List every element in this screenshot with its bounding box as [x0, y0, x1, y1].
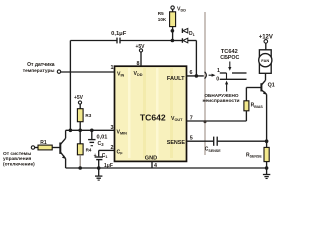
wire: Q1 base — [246, 87, 261, 89]
svg-text:0,1μF: 0,1μF — [111, 31, 127, 37]
capacitor 0,1uF — [111, 31, 127, 43]
svg-text:0,01: 0,01 — [97, 134, 108, 140]
ground rail — [66, 167, 267, 169]
transistor Q2 — [60, 130, 66, 168]
ground symbol left — [95, 168, 102, 180]
IC GND pin 4 stub — [151, 161, 153, 168]
wire: VIN input — [61, 71, 115, 73]
wire: top bypass line (right of cap) — [120, 40, 172, 42]
svg-text:R3: R3 — [85, 113, 91, 118]
svg-text:1: 1 — [217, 68, 220, 74]
wire: logic high level segment A — [220, 72, 227, 74]
capacitor C1 1uF on CF pin — [94, 150, 115, 168]
node junction on R5 leg — [171, 29, 175, 33]
svg-text:СБРОС: СБРОС — [220, 55, 239, 61]
resistor R3 — [77, 104, 91, 130]
svg-text:GND: GND — [145, 156, 157, 162]
node junction RSENSE/ground — [265, 166, 269, 170]
svg-text:1: 1 — [111, 65, 114, 71]
wire: VMIN node to pin 3 — [66, 129, 115, 131]
+5V terminal at R3 — [74, 95, 84, 104]
svg-text:От датчика: От датчика — [27, 62, 55, 68]
ground symbol right — [263, 168, 270, 179]
switch waveform: arrow to levels — [209, 74, 216, 77]
resistor RSENSE — [246, 147, 269, 161]
svg-text:От системы: От системы — [3, 151, 31, 157]
svg-text:Q1: Q1 — [268, 82, 275, 88]
node junction C3 — [90, 129, 94, 133]
svg-text:FAN: FAN — [261, 58, 269, 63]
+5V terminal at pin 8 — [135, 44, 145, 52]
svg-text:6: 6 — [190, 70, 193, 76]
svg-text:(отключение): (отключение) — [3, 162, 35, 168]
capacitor CSENSE — [205, 137, 221, 153]
svg-text:+: + — [94, 153, 97, 159]
node junction SENSE — [265, 139, 269, 143]
dark spot where fold line crosses VOUT wire — [204, 120, 207, 123]
wire: pin 8 stub — [140, 52, 142, 66]
switch waveform: arc — [205, 72, 207, 79]
IC U1 TC642 — [115, 66, 187, 161]
svg-text:температуры: температуры — [23, 69, 55, 74]
wire: diode branch down to FAULT line — [195, 41, 197, 76]
svg-text:+5V: +5V — [74, 95, 84, 101]
wire: logic low level — [220, 78, 247, 80]
svg-text:R1: R1 — [40, 140, 47, 146]
svg-text:0: 0 — [216, 76, 219, 82]
node junction C1/ground — [97, 166, 101, 170]
node junction top wire / diode branch — [171, 39, 175, 43]
svg-text:8: 8 — [137, 61, 140, 67]
terminal: from temperature sensor — [23, 62, 61, 74]
node junction vertical/VMIN — [69, 129, 73, 133]
svg-text:C3: C3 — [98, 141, 105, 147]
wire: vertical from top line down to VMIN node — [69, 41, 71, 131]
resistor R1 — [35, 140, 60, 150]
SENSE wire (pin5 to cap) — [187, 140, 214, 142]
diode D1 — [174, 38, 196, 43]
VDD terminal — [171, 6, 186, 13]
resistor RBIAS — [244, 88, 264, 122]
svg-text:10K: 10K — [158, 17, 167, 22]
FAULT wire — [187, 75, 204, 77]
node junction R3/R4 — [78, 129, 82, 133]
+12V terminal — [259, 35, 273, 44]
svg-text:SENSE: SENSE — [167, 140, 186, 146]
svg-text:ОБНАРУЖЕНО: ОБНАРУЖЕНО — [204, 93, 239, 98]
svg-text:неисправности: неисправности — [202, 99, 239, 104]
wire: falling edge — [226, 73, 228, 79]
transistor Q1 — [261, 80, 274, 94]
terminal: from control system (shutdown) — [3, 146, 35, 168]
node junction R4/rail — [78, 166, 82, 170]
diode D1 callout symbol — [182, 28, 194, 37]
capacitor C3 0,01 to ground — [88, 130, 107, 147]
svg-text:R4: R4 — [86, 148, 92, 153]
svg-text:R5: R5 — [158, 11, 164, 16]
wire: top bypass line (left of cap) — [70, 40, 117, 42]
resistor R5 10K — [158, 9, 176, 40]
svg-text:FAULT: FAULT — [167, 76, 185, 82]
wire: fan to Q1 collector — [265, 73, 267, 80]
fan motor M1 — [259, 50, 272, 74]
annotation TC642 RESET with down arrow — [220, 49, 239, 71]
wire: VOUT to RBIAS — [187, 120, 247, 122]
wire: +12V to fan — [265, 43, 267, 50]
scan fold line (light gray vertical) — [204, 12, 206, 155]
wire: logic high level segment B — [232, 72, 247, 74]
annotation FAULT DETECTED with up arrow — [202, 81, 239, 104]
node junction FAULT/diode — [195, 74, 199, 78]
wire: Q1 emitter down — [266, 94, 268, 168]
SENSE wire (cap to emitter) — [217, 140, 266, 142]
svg-text:TC642: TC642 — [140, 112, 166, 122]
svg-text:управления: управления — [3, 157, 32, 162]
resistor R4 — [77, 130, 92, 168]
